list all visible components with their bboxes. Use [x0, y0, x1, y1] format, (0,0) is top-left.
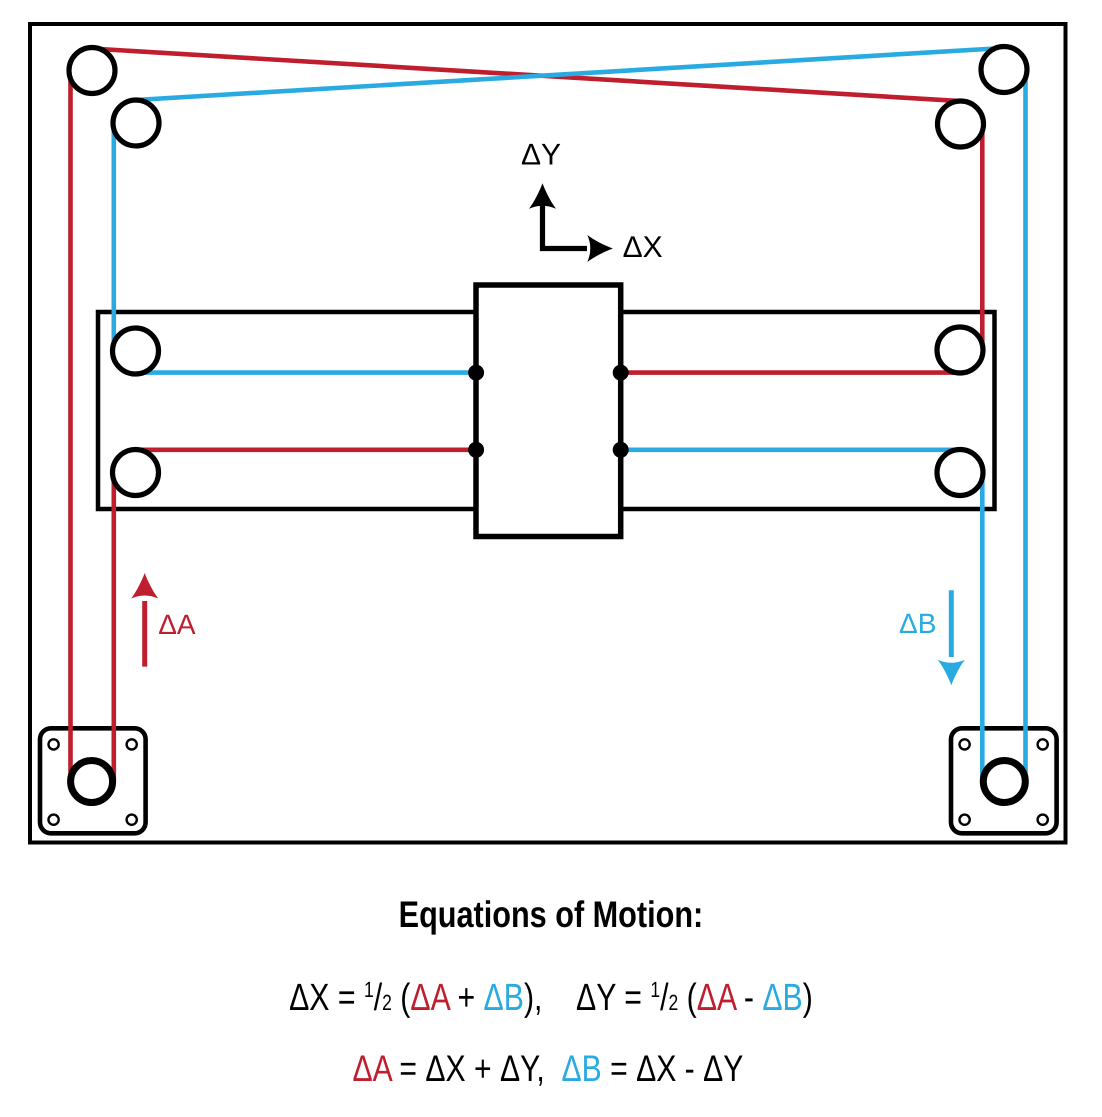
pulley GR-bottom	[937, 450, 983, 496]
belt B blue: motor B up, around TR1, across top, around TL2, down, around GL-top, to carriage	[114, 48, 1026, 781]
pulley TL1	[69, 48, 115, 94]
svg-text:ΔY: ΔY	[521, 139, 561, 172]
belt anchor dot bottom-left	[468, 442, 484, 458]
axis arrow X head	[587, 235, 613, 262]
belt A red: motor A up, around pulley TL1, across top, around TR2, down, around GR-top, to carriage	[71, 49, 983, 781]
carriage	[476, 285, 621, 537]
pulley GL-top	[113, 328, 159, 374]
motor M-B screw holes	[960, 739, 1048, 825]
svg-text:ΔB: ΔB	[899, 608, 936, 639]
equations title	[0, 894, 1102, 936]
belt A red: carriage left-bottom, around GL-bottom, down to motor A	[114, 450, 476, 781]
gantry	[98, 312, 995, 509]
belt anchor dot bottom-right	[613, 442, 629, 458]
arrow dB	[949, 590, 954, 657]
motor M-B	[951, 728, 1057, 833]
svg-text:ΔX: ΔX	[623, 231, 663, 264]
motor M-A screw holes	[49, 739, 137, 825]
belt anchor dot top-left	[468, 365, 484, 381]
equation line 1	[0, 979, 1102, 1022]
svg-text:ΔA: ΔA	[158, 609, 196, 640]
motor M-A	[40, 728, 146, 833]
motor B shaft	[983, 761, 1025, 803]
equation line 2	[0, 1048, 1102, 1090]
motor A shaft	[71, 761, 113, 803]
pulley TR1	[981, 47, 1027, 93]
pulley GL-bottom	[113, 450, 159, 496]
pulley TR2	[938, 101, 984, 147]
pulley GR-top	[937, 327, 983, 373]
arrow dA	[142, 601, 147, 667]
axis arrow Y	[543, 205, 588, 249]
belt B blue: carriage right-bottom, around GR-bottom, down to motor B	[621, 450, 983, 781]
pulley TL2	[113, 100, 159, 146]
belt anchor dot top-right	[613, 365, 629, 381]
